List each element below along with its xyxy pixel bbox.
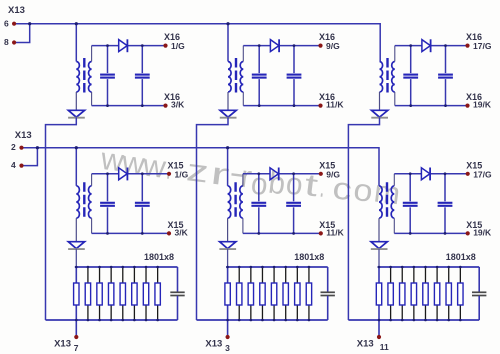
wire T2 primary to D8 — [227, 92, 229, 110]
svg-text:3: 3 — [225, 343, 230, 353]
resistor RN3.1 — [376, 283, 381, 305]
wire feed column 2 row2 — [227, 148, 229, 186]
wire row1 block1 top rail — [92, 45, 119, 47]
junction — [238, 319, 241, 322]
wire network1 right branch bottom — [177, 296, 179, 320]
junction — [133, 266, 136, 269]
resistor RN1.5 — [120, 283, 125, 305]
pin X16 11/K — [318, 104, 322, 108]
junction — [273, 319, 276, 322]
resistor RN3.3 — [400, 283, 405, 305]
junction — [133, 319, 136, 322]
resistor RN1.6 — [132, 283, 137, 305]
junction — [444, 232, 447, 235]
wire resistor RN3.7 leads — [448, 267, 450, 283]
pin X13-3 — [226, 335, 230, 339]
wire D7 cathode to network 1 — [46, 117, 77, 320]
wire network2 top rail — [226, 266, 328, 268]
diode D8 — [220, 110, 237, 117]
svg-text:X13: X13 — [357, 339, 374, 350]
svg-text:17/G: 17/G — [473, 41, 492, 51]
junction — [250, 319, 253, 322]
svg-text:1801x8: 1801x8 — [294, 252, 324, 262]
resistor RN3.4 — [411, 283, 416, 305]
junction — [156, 319, 159, 322]
svg-text:1/G: 1/G — [175, 169, 189, 179]
wire resistor RN2.4 leads — [261, 267, 263, 283]
wire network1 feed to pin X13-7 — [75, 267, 77, 337]
wire C7 leads — [107, 174, 109, 202]
wire T4 secondary bottom — [91, 218, 93, 233]
junction — [258, 104, 261, 107]
wire row2 block3 bottom rail — [394, 232, 467, 234]
pin X15 19/K — [466, 231, 470, 235]
wire row2 block1 bottom rail — [92, 232, 169, 234]
svg-text:1801x8: 1801x8 — [144, 252, 174, 262]
junction — [257, 232, 260, 235]
wire row2 block2 top rail — [243, 173, 270, 175]
resistor RN2.5 — [271, 283, 276, 305]
junction — [296, 319, 299, 322]
junction — [378, 266, 381, 269]
wire resistor RN3.2 leads — [390, 267, 392, 283]
wire T6 secondary bottom — [393, 218, 395, 233]
wire T2 secondary bottom — [242, 92, 244, 106]
junction — [141, 44, 144, 47]
junction — [378, 319, 381, 322]
resistor RN3.5 — [423, 283, 428, 305]
capacitor C4 — [287, 75, 302, 78]
pin X13-8 — [12, 40, 16, 44]
pin X15 9/G — [319, 172, 323, 176]
junction — [293, 104, 296, 107]
resistor RN2.2 — [237, 283, 242, 305]
svg-text:m: m — [372, 173, 402, 211]
diode D11 — [219, 242, 236, 249]
wire C12 leads — [444, 174, 446, 202]
junction — [110, 266, 113, 269]
wire X13-8 pigtail — [14, 24, 30, 43]
junction — [98, 266, 101, 269]
wire row1 block1 bottom rail — [92, 105, 166, 107]
diode D9 — [371, 110, 388, 117]
wire D12 cathode to network 3 top rail — [378, 249, 380, 267]
wire D8 cathode to network 2 — [197, 117, 229, 320]
junction — [409, 172, 412, 175]
svg-text:11/K: 11/K — [326, 228, 344, 238]
junction — [308, 319, 311, 322]
wire X13-4 pigtail — [22, 148, 38, 166]
junction — [447, 319, 450, 322]
wire T2 secondary top — [242, 46, 244, 62]
junction — [258, 44, 261, 47]
wire C2 leads — [141, 46, 143, 74]
junction — [226, 146, 229, 149]
junction — [436, 319, 439, 322]
wire feed column 1 row2 — [75, 148, 77, 186]
wire row2 block3 top rail — [394, 173, 421, 175]
wire row1 block3 bottom rail — [395, 105, 468, 107]
transformer T5 — [228, 182, 243, 218]
pin X13-4 — [19, 164, 23, 168]
svg-text:8: 8 — [4, 37, 9, 47]
svg-text:1801x8: 1801x8 — [446, 252, 476, 262]
transformer T3 — [380, 58, 395, 93]
wire C9 leads — [258, 174, 260, 202]
junction — [110, 319, 113, 322]
junction — [389, 319, 392, 322]
resistor RN2.1 — [225, 283, 230, 305]
junction — [226, 266, 229, 269]
wire C6 leads — [445, 46, 447, 74]
wire C1 leads — [107, 46, 109, 74]
resistor RN3.8 — [458, 283, 463, 305]
wire X13-2 rail — [22, 148, 380, 186]
pin X15 11/K — [319, 231, 323, 235]
svg-text:X13: X13 — [8, 5, 25, 16]
wire resistor RN1.2 leads — [87, 267, 89, 283]
junction — [436, 266, 439, 269]
wire T5 primary to D11 — [227, 218, 229, 242]
diode D2 — [270, 39, 279, 52]
svg-text:19/K: 19/K — [473, 100, 492, 110]
junction — [87, 319, 90, 322]
wire resistor RN1.8 leads — [157, 267, 159, 283]
diode D1 — [119, 39, 128, 52]
wire T1 secondary top — [91, 46, 93, 62]
wire resistor RN2.6 leads — [285, 267, 287, 283]
wire resistor RN1.3 leads — [99, 267, 101, 283]
svg-text:3/K: 3/K — [171, 100, 185, 110]
resistor RN3.7 — [446, 283, 451, 305]
junction — [75, 22, 78, 25]
wire network1 top rail — [75, 266, 178, 268]
junction — [257, 172, 260, 175]
diode D3 — [422, 39, 431, 52]
resistor RN2.4 — [260, 283, 265, 305]
wire network3 right branch top — [478, 267, 480, 292]
wire T6 secondary top — [393, 174, 395, 186]
wire C5 leads — [410, 46, 412, 74]
capacitor C6 — [438, 75, 453, 78]
capacitor C7 — [100, 203, 115, 206]
junction — [413, 319, 416, 322]
svg-text:X13: X13 — [205, 339, 222, 350]
junction — [459, 266, 462, 269]
junction — [401, 319, 404, 322]
svg-text:7: 7 — [74, 343, 79, 353]
junction — [226, 22, 229, 25]
wire X13-6 rail — [14, 24, 380, 62]
wire row2 block1 top rail — [92, 173, 119, 175]
svg-text:6: 6 — [4, 18, 9, 28]
capacitor C11 — [403, 203, 418, 206]
pin X16 19/K — [465, 104, 469, 108]
wire resistor RN3.6 leads — [436, 267, 438, 283]
wire T5 secondary top — [242, 174, 244, 186]
wire feed column 2 row1 — [227, 24, 229, 62]
svg-text:4: 4 — [11, 160, 16, 170]
junction — [156, 266, 159, 269]
transformer T2 — [228, 58, 243, 93]
svg-text:9/G: 9/G — [326, 169, 340, 179]
junction — [98, 319, 101, 322]
capacitor C10 — [286, 203, 301, 206]
junction — [226, 319, 229, 322]
wire resistor RN1.6 leads — [133, 267, 135, 283]
junction — [87, 266, 90, 269]
resistor RN2.7 — [295, 283, 300, 305]
diode D12 — [371, 242, 388, 249]
junction — [106, 104, 109, 107]
junction — [250, 266, 253, 269]
diode D5 — [270, 168, 279, 181]
svg-text:17/G: 17/G — [473, 169, 492, 179]
wire network3 right branch bottom — [478, 296, 480, 320]
wire feed column 1 row1 — [75, 24, 77, 62]
wire C11 leads — [409, 174, 411, 202]
junction — [292, 232, 295, 235]
transformer T6 — [379, 182, 394, 218]
junction — [447, 266, 450, 269]
wire C8 leads — [141, 174, 143, 202]
wire resistor RN1.7 leads — [145, 267, 147, 283]
watermark www.zr-robot.com — [98, 141, 402, 211]
junction — [444, 172, 447, 175]
junction — [141, 172, 144, 175]
wire resistor RN3.4 leads — [413, 267, 415, 283]
svg-text:11: 11 — [380, 342, 389, 352]
capacitor C9 — [251, 203, 266, 206]
wire T3 primary to D9 — [379, 92, 381, 110]
resistor RN3.2 — [388, 283, 393, 305]
wire T1 secondary bottom — [91, 92, 93, 106]
wire network2 bottom rail — [197, 319, 328, 321]
wire T6 primary to D12 — [378, 218, 380, 242]
svg-text:X13: X13 — [54, 339, 71, 350]
pin X13-11 — [377, 335, 381, 339]
capacitor C15 — [472, 292, 486, 295]
wire resistor RN1.5 leads — [122, 267, 124, 283]
resistor RN3.6 — [434, 283, 439, 305]
transformer T4 — [76, 182, 91, 218]
svg-text:11/K: 11/K — [326, 100, 344, 110]
junction — [28, 22, 31, 25]
capacitor C1 — [100, 75, 115, 78]
junction — [284, 266, 287, 269]
wire network1 right branch top — [177, 267, 179, 292]
capacitor C14 — [321, 292, 335, 295]
svg-text:1/G: 1/G — [171, 41, 185, 51]
junction — [424, 319, 427, 322]
resistor RN1.7 — [143, 283, 148, 305]
wire C10 leads — [293, 174, 295, 202]
junction — [121, 319, 124, 322]
junction — [444, 104, 447, 107]
junction — [145, 266, 148, 269]
junction — [296, 266, 299, 269]
junction — [401, 266, 404, 269]
diode D4 — [119, 168, 128, 181]
wire resistor RN3.3 leads — [401, 267, 403, 283]
wire T5 secondary bottom — [242, 218, 244, 233]
junction — [444, 44, 447, 47]
svg-text:9/G: 9/G — [326, 41, 340, 51]
resistor RN2.3 — [248, 283, 253, 305]
wire T1 primary to D7 — [75, 92, 77, 110]
capacitor C13 — [170, 292, 184, 295]
wire D11 cathode to network 2 top rail — [227, 249, 229, 267]
svg-text:3/K: 3/K — [175, 228, 189, 238]
wire C3 leads — [258, 46, 260, 74]
svg-text:19/K: 19/K — [473, 228, 492, 238]
wire network3 feed to pin X13-11 — [378, 267, 380, 337]
wire row1 block3 top rail — [395, 45, 422, 47]
junction — [238, 266, 241, 269]
junction — [106, 44, 109, 47]
pin X16 3/K — [163, 104, 167, 108]
wire network1 bottom rail — [46, 319, 178, 321]
wire T3 secondary bottom — [394, 92, 396, 106]
junction — [413, 266, 416, 269]
pin X15 17/G — [466, 172, 470, 176]
junction — [36, 146, 39, 149]
wire resistor RN2.2 leads — [238, 267, 240, 283]
wire resistor RN2.3 leads — [250, 267, 252, 283]
junction — [261, 319, 264, 322]
wire row1 block2 bottom rail — [243, 105, 320, 107]
junction — [459, 319, 462, 322]
pin X16 17/G — [465, 44, 469, 48]
junction — [424, 266, 427, 269]
svg-text:z: z — [185, 152, 211, 189]
wire network2 feed to pin X13-3 — [227, 267, 229, 337]
diode D6 — [421, 168, 430, 181]
pin X13-7 — [74, 335, 78, 339]
capacitor C2 — [135, 75, 150, 78]
resistor RN1.2 — [85, 283, 90, 305]
resistor RN1.4 — [108, 283, 113, 305]
wire resistor RN1.4 leads — [110, 267, 112, 283]
capacitor C8 — [135, 203, 150, 206]
resistor RN1.3 — [97, 283, 102, 305]
junction — [308, 266, 311, 269]
svg-text:2: 2 — [11, 142, 16, 152]
wire row1 block2 top rail — [243, 45, 270, 47]
pin X13-2 — [19, 146, 23, 150]
pin X16 1/G — [163, 44, 167, 48]
pin X13-6 — [12, 22, 16, 26]
resistor RN1.8 — [155, 283, 160, 305]
wire D10 cathode to network 1 top rail — [75, 249, 77, 267]
junction — [409, 44, 412, 47]
junction — [141, 104, 144, 107]
wire network3 bottom rail — [348, 319, 479, 321]
wire T4 primary to D10 — [75, 218, 77, 242]
wire resistor RN2.5 leads — [273, 267, 275, 283]
wire network3 top rail — [378, 266, 480, 268]
resistor RN2.6 — [283, 283, 288, 305]
junction — [284, 319, 287, 322]
capacitor C3 — [252, 75, 267, 78]
junction — [141, 232, 144, 235]
svg-text:X13: X13 — [15, 130, 32, 141]
junction — [292, 172, 295, 175]
junction — [261, 266, 264, 269]
junction — [145, 319, 148, 322]
wire resistor RN3.8 leads — [459, 267, 461, 283]
junction — [75, 319, 78, 322]
wire network2 right branch top — [327, 267, 329, 292]
transformer T1 — [76, 58, 91, 93]
pin X15 3/K — [167, 231, 171, 235]
junction — [106, 172, 109, 175]
junction — [75, 146, 78, 149]
resistor RN2.8 — [306, 283, 311, 305]
wire row2 block2 bottom rail — [243, 232, 321, 234]
junction — [121, 266, 124, 269]
capacitor C12 — [438, 203, 453, 206]
resistor RN1.1 — [74, 283, 79, 305]
pin X15 1/G — [167, 172, 171, 176]
junction — [409, 104, 412, 107]
wire resistor RN3.5 leads — [424, 267, 426, 283]
junction — [293, 44, 296, 47]
wire T4 secondary top — [91, 174, 93, 186]
wire T3 secondary top — [394, 46, 396, 62]
pin X16 9/G — [318, 44, 322, 48]
wire network2 right branch bottom — [327, 296, 329, 320]
junction — [75, 266, 78, 269]
wire resistor RN2.8 leads — [308, 267, 310, 283]
svg-text:w: w — [140, 147, 168, 185]
capacitor C5 — [403, 75, 418, 78]
wire resistor RN2.7 leads — [296, 267, 298, 283]
junction — [106, 232, 109, 235]
junction — [409, 232, 412, 235]
diode D10 — [68, 242, 85, 249]
diode D7 — [68, 110, 85, 117]
junction — [273, 266, 276, 269]
wire C4 leads — [293, 46, 295, 74]
wire D9 cathode to network 3 — [348, 117, 379, 320]
junction — [389, 266, 392, 269]
